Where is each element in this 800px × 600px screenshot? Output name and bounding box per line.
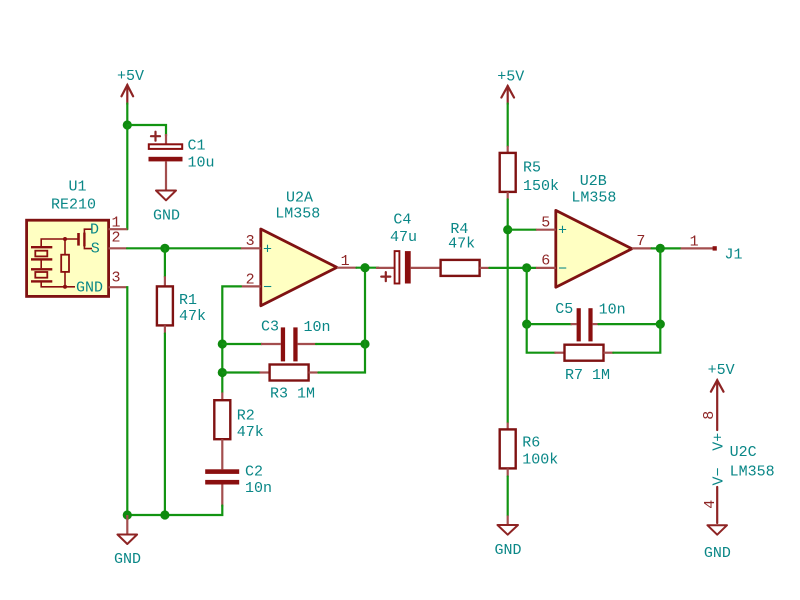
op-amp U2C power unit [701, 411, 774, 523]
resistor R4 [441, 221, 490, 276]
svg-text:GND: GND [704, 545, 731, 562]
svg-text:R5: R5 [523, 160, 541, 177]
wire C5 left [527, 323, 572, 325]
svg-text:GND: GND [495, 542, 522, 559]
ground (U2C) [704, 525, 731, 562]
svg-text:C3: C3 [261, 319, 279, 336]
internal JFET [77, 233, 80, 246]
svg-text:+5V: +5V [117, 68, 144, 85]
op-amp U2B [536, 173, 652, 287]
junction [218, 368, 227, 377]
wire R4 to U2B pin6 [489, 267, 536, 269]
internal resistor [61, 255, 69, 272]
resistor R5 [500, 146, 559, 200]
ground (C1) [153, 191, 180, 225]
wire R3 left [222, 371, 260, 373]
junction [522, 320, 531, 329]
electrode bar 4 [31, 280, 52, 282]
junction [656, 320, 665, 329]
resistor R7 [554, 345, 613, 385]
svg-text:1: 1 [341, 253, 350, 270]
svg-text:R3 1M: R3 1M [270, 386, 315, 403]
wire C3 left [222, 343, 262, 345]
junction [160, 244, 169, 253]
svg-text:47k: 47k [237, 424, 264, 441]
junction [522, 263, 531, 272]
svg-text:C2: C2 [245, 464, 263, 481]
svg-text:U2A: U2A [286, 189, 313, 206]
wire pin6 down to C5 [526, 268, 528, 324]
connector J1 pin 1 [681, 234, 743, 264]
svg-text:10u: 10u [188, 155, 215, 172]
wire R6 to ground [507, 477, 509, 516]
resistor R2 [214, 392, 264, 469]
wire U2B out down to C5 [659, 248, 661, 324]
svg-text:10n: 10n [245, 480, 272, 497]
capacitor C1 [149, 132, 215, 190]
svg-text:LM358: LM358 [275, 206, 320, 223]
resistor R3 [260, 365, 319, 403]
svg-text:GND: GND [114, 551, 141, 568]
power flag +5V (right) [497, 69, 524, 104]
svg-text:C1: C1 [188, 138, 206, 155]
ground (rail) [114, 515, 141, 568]
wire +5V to R5 [507, 104, 509, 147]
electrode bar 3 [31, 268, 52, 270]
electrode rect 2 [35, 272, 47, 278]
svg-text:R2: R2 [237, 408, 255, 425]
junction [218, 339, 227, 348]
op-amp U2A [241, 189, 357, 305]
svg-text:C4: C4 [393, 212, 411, 229]
svg-text:R6: R6 [522, 435, 540, 452]
junction [360, 339, 369, 348]
svg-text:47u: 47u [390, 229, 417, 246]
wire R7 right up to C5 net [613, 324, 660, 353]
wire U1 pin3 down to rail [126, 287, 129, 515]
wire C5 right [599, 323, 661, 325]
svg-text:10n: 10n [599, 301, 626, 318]
electrode bar 2 [31, 258, 52, 260]
svg-text:V+: V+ [710, 433, 727, 451]
electrode rect 1 [35, 251, 47, 257]
wire C2 to rail [127, 506, 222, 516]
svg-text:R1: R1 [179, 292, 197, 309]
svg-text:3: 3 [246, 233, 255, 250]
svg-text:LM358: LM358 [571, 190, 616, 207]
resistor R6 [500, 423, 559, 477]
capacitor C3 [261, 319, 331, 362]
capacitor C4 [376, 212, 441, 284]
wire R5 to junction and down to R6 [507, 199, 509, 422]
svg-text:GND: GND [153, 208, 180, 225]
svg-text:J1: J1 [725, 247, 743, 264]
svg-text:V−: V− [710, 467, 727, 485]
power flag +5V (left) [117, 68, 144, 104]
svg-text:1: 1 [690, 234, 699, 251]
junction [123, 510, 132, 519]
svg-text:D: D [90, 222, 99, 239]
wire U1 pin2 to U2A pin3 [127, 247, 241, 249]
wire junction down to U1 pin 1 [126, 125, 128, 229]
junction [360, 263, 369, 272]
svg-text:R7 1M: R7 1M [565, 367, 610, 384]
junction [160, 510, 169, 519]
svg-text:LM358: LM358 [730, 464, 775, 481]
svg-text:+5V: +5V [497, 69, 524, 86]
resistor R1 [157, 248, 206, 333]
svg-text:−: − [558, 261, 567, 278]
wire +5V down to junction [126, 104, 128, 126]
pin 3 [109, 286, 128, 288]
internal wiring [41, 239, 77, 246]
wire R7 left [527, 324, 555, 353]
svg-text:5: 5 [541, 214, 550, 231]
ground (R6) [495, 516, 522, 559]
svg-text:2: 2 [246, 272, 255, 289]
wire R3 right up to C3 net [318, 268, 365, 373]
wire junction to C1 [127, 125, 166, 136]
svg-text:2: 2 [112, 230, 121, 247]
svg-text:U2B: U2B [580, 173, 607, 190]
pin 1 [109, 228, 128, 230]
wire U2B out [652, 247, 681, 249]
svg-text:+: + [263, 241, 272, 258]
svg-text:C5: C5 [555, 301, 573, 318]
wire C3 right to junction [316, 343, 365, 345]
svg-text:GND: GND [76, 279, 103, 296]
svg-text:47k: 47k [179, 308, 206, 325]
svg-text:+: + [558, 223, 567, 240]
wire U2A out to junction [357, 267, 379, 269]
svg-text:S: S [91, 240, 100, 257]
sensor U1 [27, 179, 128, 297]
junction [656, 244, 665, 253]
wire U2A pin2 loop down [222, 286, 241, 392]
wire junction to U2B pin5 [508, 229, 536, 231]
pin 2 [109, 247, 128, 249]
svg-text:8: 8 [701, 411, 718, 420]
svg-text:47k: 47k [448, 236, 475, 253]
svg-text:+5V: +5V [708, 362, 735, 379]
svg-text:10n: 10n [304, 319, 331, 336]
electrode bar 1 [31, 246, 52, 248]
wire R1 down to rail [164, 334, 166, 516]
junction [123, 120, 132, 129]
svg-text:3: 3 [112, 270, 121, 287]
svg-text:7: 7 [636, 233, 645, 250]
junction [503, 225, 512, 234]
capacitor C2 [205, 464, 272, 507]
svg-text:150k: 150k [523, 178, 559, 195]
svg-text:U2C: U2C [730, 444, 757, 461]
svg-text:U1: U1 [69, 179, 87, 196]
svg-text:6: 6 [541, 253, 550, 270]
svg-text:−: − [263, 279, 272, 296]
svg-text:100k: 100k [522, 452, 558, 469]
power flag +5V (U2C) [708, 362, 735, 430]
capacitor C5 [555, 301, 625, 341]
svg-text:RE210: RE210 [51, 197, 96, 214]
